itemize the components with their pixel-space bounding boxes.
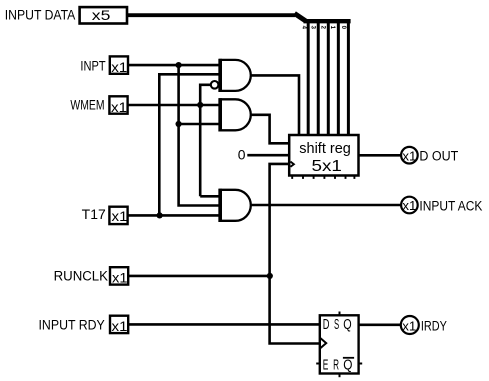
svg-text:D OUT: D OUT [419, 149, 458, 164]
svg-text:Q: Q [343, 358, 352, 374]
svg-text:x1: x1 [402, 198, 416, 213]
svg-text:x1: x1 [111, 100, 127, 115]
svg-text:x1: x1 [112, 319, 128, 334]
svg-text:R: R [333, 358, 339, 374]
svg-text:x1: x1 [112, 209, 128, 224]
svg-text:IRDY: IRDY [421, 319, 447, 334]
svg-text:x1: x1 [402, 319, 416, 334]
svg-text:x5: x5 [92, 8, 111, 23]
svg-text:WMEM: WMEM [70, 98, 104, 113]
svg-text:x1: x1 [402, 148, 416, 163]
svg-text:S: S [334, 317, 339, 333]
svg-text:E: E [323, 358, 329, 374]
svg-text:RUNCLK: RUNCLK [54, 269, 108, 284]
svg-text:0: 0 [238, 146, 246, 162]
svg-text:x1: x1 [112, 270, 128, 285]
svg-text:D: D [323, 317, 330, 333]
svg-text:shift reg: shift reg [299, 140, 351, 157]
svg-text:x1: x1 [111, 60, 127, 75]
svg-text:INPT: INPT [80, 58, 105, 73]
svg-text:T17: T17 [82, 207, 106, 222]
svg-text:INPUT RDY: INPUT RDY [39, 317, 105, 332]
svg-text:INPUT DATA: INPUT DATA [5, 8, 76, 23]
svg-text:5x1: 5x1 [312, 158, 342, 175]
svg-text:Q: Q [343, 317, 351, 333]
svg-text:INPUT ACK: INPUT ACK [419, 198, 482, 213]
